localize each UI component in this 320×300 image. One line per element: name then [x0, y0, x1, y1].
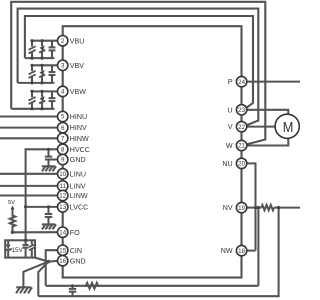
resistor shunt (NV) [262, 205, 274, 210]
svg-text:9: 9 [61, 157, 65, 164]
svg-text:2: 2 [61, 38, 65, 45]
svg-text:23: 23 [238, 107, 245, 114]
svg-text:LINW: LINW [70, 192, 88, 200]
capacitor ceramic VBV [49, 65, 56, 83]
capacitor ceramic VBW [49, 91, 56, 108]
wire HINU stub [0, 115, 58, 117]
capacitor HVCC decoupling [45, 148, 52, 167]
capacitor LVCC decoupling [45, 205, 52, 224]
svg-text:LINV: LINV [70, 183, 86, 191]
diode bootstrap VBV [39, 65, 45, 83]
svg-text:M: M [283, 119, 294, 136]
wire bottom rail VBW [11, 108, 54, 110]
pin 19 NV [223, 202, 247, 212]
svg-text:GND: GND [70, 156, 86, 164]
capacitor CIN filter [69, 284, 76, 296]
svg-text:U: U [227, 106, 232, 114]
wire LINV stub [0, 185, 58, 187]
bootstrap network V (pin3 VBV) [18, 64, 58, 85]
svg-text:LINU: LINU [70, 170, 86, 178]
ground (HVCC cap) [42, 166, 56, 171]
wire U to motor [246, 110, 289, 115]
pin 8 HVCC [58, 144, 90, 154]
ground (LVCC cap) [42, 224, 56, 229]
svg-text:HINW: HINW [70, 135, 89, 143]
resistor CIN filter [85, 283, 100, 289]
wire 5V arrow [11, 206, 15, 215]
wire LINW stub [0, 194, 58, 196]
pin 12 LINW [58, 190, 88, 200]
pin 15 CIN [58, 245, 83, 255]
pin 18 NW [221, 245, 247, 255]
svg-text:5V: 5V [8, 200, 15, 206]
svg-text:10: 10 [59, 171, 66, 178]
wire GND return bus W2 [38, 208, 278, 297]
svg-text:CIN: CIN [70, 247, 82, 255]
svg-text:6: 6 [61, 125, 65, 132]
wire NV line [246, 207, 262, 209]
15V supply box [5, 239, 35, 258]
pin 5 HINU [58, 111, 88, 121]
svg-text:FO: FO [70, 229, 80, 237]
wire HINV stub [0, 127, 58, 129]
svg-text:14: 14 [59, 229, 66, 236]
capacitor ceramic VBU [49, 41, 56, 58]
wire P output [246, 81, 300, 83]
wire HINW stub [0, 137, 58, 139]
pin 10 LINU [58, 169, 86, 179]
svg-text:NW: NW [221, 247, 233, 255]
svg-text:VBU: VBU [70, 37, 85, 45]
svg-text:LVCC: LVCC [70, 204, 88, 212]
svg-text:P: P [228, 78, 233, 86]
wire bottom rail VBU [25, 57, 55, 59]
svg-text:W: W [226, 142, 233, 150]
svg-text:GND: GND [70, 257, 86, 265]
wire FO [13, 231, 59, 233]
pin 14 FO [58, 227, 81, 237]
svg-text:22: 22 [238, 124, 245, 131]
capacitor 15V filter [23, 240, 29, 257]
pin 11 LINV [58, 181, 86, 191]
pin 4 VBW [58, 86, 87, 96]
svg-text:NU: NU [222, 160, 232, 168]
node HVCC-LVCC junction [24, 205, 27, 208]
svg-text:VBV: VBV [70, 62, 84, 70]
pin 13 LVCC [58, 202, 89, 212]
capacitor electrolytic (hatched) VBU [29, 41, 36, 58]
wire top rail VBV [32, 64, 58, 66]
wire junction to 15V box bottom [35, 258, 49, 262]
wire LVCC feed [26, 206, 58, 208]
wire NW to N bus [246, 250, 256, 252]
pin 22 V [228, 121, 247, 131]
wire HVCC rail down to 15V node [26, 149, 58, 240]
wire CIN path [46, 250, 58, 286]
wire CIN filter bus W1 [46, 285, 259, 287]
capacitor electrolytic (hatched) VBV [29, 65, 36, 83]
wire VBU bootstrap to U phase (over the top, inner) [25, 16, 253, 109]
wire V to motor [246, 126, 276, 128]
svg-text:HINU: HINU [70, 113, 87, 121]
wire NU to N bus [246, 163, 256, 250]
wire VBW bootstrap to W phase (over the top, outermost) [11, 2, 265, 145]
pin 23 U [227, 105, 246, 115]
svg-text:4: 4 [61, 89, 65, 96]
wire bottom rail VBV [18, 82, 55, 84]
svg-text:15V: 15V [12, 247, 24, 254]
pin 6 HINV [58, 122, 88, 132]
svg-text:13: 13 [59, 204, 66, 211]
wire top rail VBU [32, 40, 58, 42]
bootstrap network U (pin2 VBU) [25, 39, 58, 60]
wire NV line to edge [274, 207, 300, 209]
wire W to motor [246, 138, 289, 145]
capacitor electrolytic (hatched) VBW [29, 91, 36, 108]
bootstrap network W (pin4 VBW) [11, 90, 58, 111]
svg-text:16: 16 [59, 258, 66, 265]
wire pin16 to junction [49, 260, 58, 263]
svg-text:11: 11 [59, 183, 66, 190]
node FO junction [11, 231, 14, 234]
node shunt output junction [277, 206, 280, 209]
svg-text:V: V [228, 123, 233, 131]
wire LINU stub [0, 173, 58, 175]
svg-text:15: 15 [59, 247, 66, 254]
svg-text:3: 3 [61, 63, 65, 70]
svg-text:HVCC: HVCC [70, 146, 90, 154]
pin 7 HINW [58, 133, 90, 143]
node W1 riser junction [257, 206, 260, 209]
wire junction to GND return bus [38, 262, 48, 297]
svg-text:18: 18 [238, 248, 245, 255]
svg-text:7: 7 [61, 136, 65, 143]
resistor FO pull-up [10, 215, 15, 233]
pin 21 W [226, 140, 247, 150]
pin 24 P [228, 76, 247, 86]
svg-text:12: 12 [59, 193, 66, 200]
capacitor electrolytic 15V (hatched) [29, 240, 35, 257]
svg-text:5: 5 [61, 114, 65, 121]
pin 16 GND [58, 256, 86, 266]
svg-text:HINV: HINV [70, 124, 87, 132]
wire VBV bootstrap to V phase (over the top, middle) [18, 9, 259, 126]
svg-text:24: 24 [238, 79, 245, 86]
svg-text:20: 20 [238, 161, 245, 168]
wire junction to ground stem [23, 262, 48, 288]
diode bootstrap VBW [39, 91, 45, 108]
pin 2 VBU [58, 36, 85, 46]
diode bootstrap VBU [39, 41, 45, 58]
wire top rail VBW [32, 90, 58, 92]
wire pin9 GND to cap [49, 158, 59, 160]
svg-text:8: 8 [61, 147, 65, 154]
node GND junction at pin16 [47, 260, 51, 264]
pin 3 VBV [58, 60, 85, 70]
svg-text:VBW: VBW [70, 88, 86, 96]
svg-text:19: 19 [238, 205, 245, 212]
wire W1 riser to NV node [257, 208, 259, 286]
zener diode 15V [5, 240, 11, 257]
motor M [275, 114, 299, 138]
pin 9 GND [58, 154, 86, 164]
pin 20 NU [222, 158, 246, 168]
node N bus junction [254, 206, 257, 209]
ground (main, bottom-left) [16, 287, 32, 293]
svg-text:21: 21 [238, 143, 245, 150]
IC body U1 (IPM inverter module) [63, 26, 242, 277]
svg-text:NV: NV [223, 204, 233, 212]
